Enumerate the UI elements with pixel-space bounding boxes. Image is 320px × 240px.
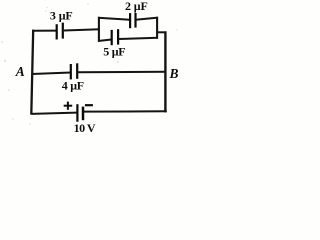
wire: top-left horizontal to C1: [32, 30, 56, 32]
wire: C1 to parallel box: [64, 29, 100, 30]
wire: box top branch left segment: [98, 18, 130, 20]
battery V1 negative plate: [82, 107, 85, 121]
svg-text:2 μF: 2 μF: [125, 0, 148, 13]
wire: box bottom branch left segment: [98, 40, 112, 42]
wire: box bottom branch right segment: [118, 38, 158, 39]
wire: box top branch right segment: [136, 18, 159, 20]
battery V1 positive plate: [76, 104, 78, 122]
wire: left bus vertical: [31, 30, 33, 115]
wire: box right edge: [156, 17, 158, 39]
svg-text:10 V: 10 V: [74, 121, 96, 135]
svg-text:A: A: [15, 64, 25, 79]
wire: battery to bottom right corner: [84, 110, 167, 112]
svg-text:5 μF: 5 μF: [103, 45, 125, 59]
wire: parallel box left edge: [98, 17, 100, 42]
capacitor C1 3 uF plates: [57, 23, 63, 40]
capacitor C3 5 uF plates: [112, 29, 118, 45]
wire: right bus vertical: [164, 31, 166, 112]
svg-text:3 μF: 3 μF: [50, 8, 73, 22]
wire: box exit to right bus: [157, 31, 167, 33]
battery plus sign: [64, 102, 72, 110]
battery minus sign: [85, 104, 93, 106]
wire: middle branch C4 to B: [77, 71, 166, 74]
capacitor C4 4 uF plates: [71, 63, 77, 79]
svg-text:4 μF: 4 μF: [62, 79, 84, 93]
wire: middle branch A to C4: [32, 73, 71, 75]
svg-text:B: B: [168, 66, 178, 81]
wire: bottom left to battery: [31, 113, 76, 114]
capacitor C2 2 uF plates: [130, 13, 135, 28]
